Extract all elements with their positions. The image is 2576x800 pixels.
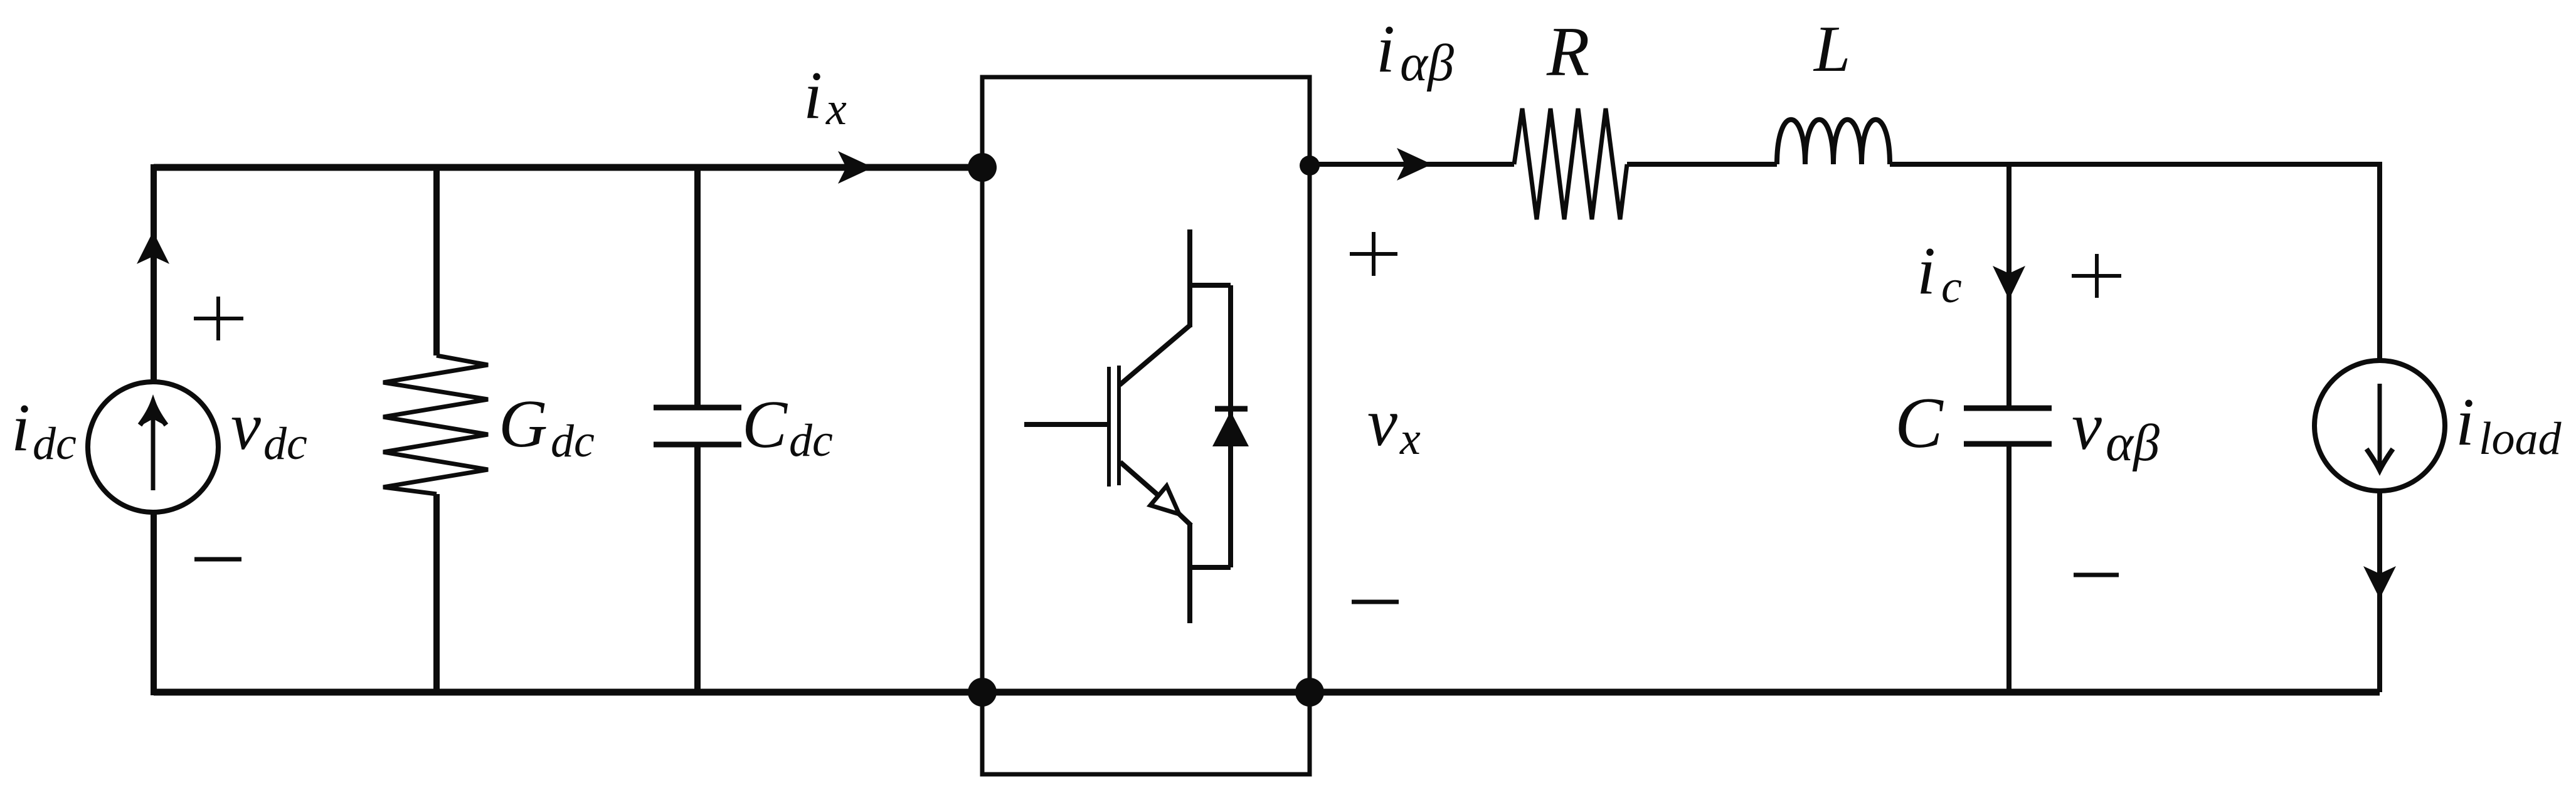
- wire top-left horizontal: [154, 164, 982, 171]
- arrow i_x on wire: [838, 151, 873, 184]
- IGBT gate lead: [1024, 422, 1107, 427]
- arrow i_load on wire: [2363, 566, 2396, 599]
- label i_dc: [11, 391, 77, 470]
- wire right branch bottom: [2377, 490, 2382, 692]
- current source i_load: [2314, 361, 2445, 491]
- IGBT emitter diagonal: [1120, 462, 1160, 497]
- label i_alphabeta: [1376, 12, 1454, 92]
- label i_load: [2456, 385, 2562, 465]
- svg-text:i: i: [1917, 234, 1936, 308]
- IGBT collector diagonal: [1120, 325, 1190, 385]
- current source i_dc: [88, 382, 218, 512]
- label i_x: [803, 58, 847, 135]
- plus sign v_dc: [194, 297, 243, 340]
- IGBT emitter-diode link: [1190, 565, 1231, 570]
- svg-text:dc: dc: [263, 418, 307, 470]
- wire R to L: [1627, 162, 1777, 167]
- resistor G_dc zigzag: [383, 355, 488, 494]
- diode cathode bar: [1215, 406, 1248, 412]
- svg-text:dc: dc: [789, 415, 833, 466]
- svg-text:L: L: [1813, 12, 1850, 85]
- wire bottom horizontal: [154, 689, 2380, 696]
- svg-text:i: i: [11, 391, 30, 465]
- label v_dc: [231, 389, 307, 470]
- label v_x: [1367, 386, 1421, 465]
- arrow i_alphabeta on wire: [1397, 148, 1432, 181]
- svg-text:αβ: αβ: [1400, 34, 1454, 92]
- wire box to R: [1310, 162, 1514, 167]
- svg-text:dc: dc: [33, 418, 77, 470]
- wire left vertical upper: [151, 164, 157, 382]
- svg-text:x: x: [825, 83, 847, 135]
- minus sign v_alphabeta: [2074, 573, 2119, 577]
- svg-text:C: C: [742, 387, 788, 462]
- plus sign v_alphabeta: [2072, 254, 2121, 298]
- svg-text:dc: dc: [551, 416, 595, 467]
- inductor L: [1777, 120, 1890, 164]
- node dot top-right of box: [1300, 155, 1320, 176]
- converter box: [982, 77, 1310, 774]
- svg-text:v: v: [2072, 389, 2102, 464]
- wire G_dc branch top: [433, 164, 440, 355]
- resistor R zigzag: [1514, 108, 1627, 219]
- IGBT collector-diode link: [1190, 283, 1231, 288]
- arrow inside i_load source: [2378, 384, 2382, 466]
- IGBT collector lead: [1187, 229, 1192, 327]
- svg-text:v: v: [231, 389, 261, 464]
- diode triangle: [1212, 411, 1249, 446]
- label i_c: [1917, 234, 1962, 313]
- capacitor C_dc plates: [654, 405, 741, 411]
- svg-text:αβ: αβ: [2106, 414, 2160, 472]
- diode D vertical: [1228, 285, 1233, 567]
- svg-text:i: i: [1376, 12, 1395, 87]
- svg-text:load: load: [2479, 413, 2562, 465]
- wire left vertical lower: [151, 512, 157, 695]
- plus sign v_x: [1350, 232, 1397, 276]
- wire L to right corner: [1890, 162, 2382, 167]
- svg-text:R: R: [1546, 13, 1589, 91]
- arrow i_c on C branch: [1993, 266, 2025, 300]
- arrow up on left wire: [137, 231, 169, 264]
- svg-text:C: C: [1895, 383, 1944, 463]
- arrow inside i_dc source: [151, 406, 156, 490]
- IGBT emitter arrow (open): [1150, 486, 1179, 514]
- svg-text:G: G: [499, 387, 548, 461]
- minus sign v_dc: [194, 557, 241, 562]
- svg-text:v: v: [1367, 386, 1397, 460]
- svg-text:c: c: [1941, 261, 1962, 313]
- IGBT emitter lead: [1178, 513, 1191, 525]
- wire C branch bottom: [2006, 444, 2012, 692]
- svg-text:x: x: [1399, 413, 1421, 465]
- svg-text:i: i: [803, 58, 822, 133]
- node dot bottom-left of box: [968, 678, 997, 707]
- label C_dc: [742, 387, 833, 466]
- node dot bottom-right of box: [1295, 678, 1324, 707]
- capacitor C plates: [1964, 406, 2052, 411]
- wire right branch top: [2377, 162, 2382, 361]
- wire C_dc branch top: [694, 164, 701, 408]
- svg-text:i: i: [2456, 385, 2474, 460]
- wire C_dc branch bottom: [694, 445, 701, 695]
- wire C branch top: [2006, 164, 2012, 408]
- minus sign v_x: [1352, 600, 1399, 604]
- wire G_dc branch bottom: [433, 494, 440, 695]
- label G_dc: [499, 387, 595, 467]
- node dot top-left of box: [968, 153, 997, 182]
- IGBT gate bars: [1107, 367, 1111, 487]
- label v_alphabeta: [2072, 389, 2160, 472]
